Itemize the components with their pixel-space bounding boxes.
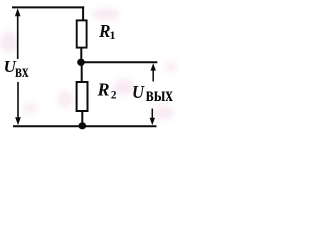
node junction dot middle xyxy=(77,59,85,66)
output voltage arrow U_vyx up arrowhead xyxy=(151,63,156,81)
wire middle horizontal (output tap) xyxy=(81,61,157,63)
wire top horizontal xyxy=(12,6,84,8)
node junction dot bottom xyxy=(79,122,87,129)
wire R1 bottom lead xyxy=(80,48,82,61)
wire node to R2 top lead xyxy=(81,63,83,82)
svg-text:вых: вых xyxy=(146,82,173,106)
svg-text:2: 2 xyxy=(111,89,117,101)
output voltage arrow U_vyx down arrowhead xyxy=(150,109,155,126)
label U_vx xyxy=(4,57,29,81)
label R1 xyxy=(98,21,115,42)
resistor R1 xyxy=(77,20,87,47)
wire R1 top lead xyxy=(82,6,84,20)
svg-text:1: 1 xyxy=(110,28,116,42)
resistor R2 xyxy=(77,82,88,111)
input voltage arrow U_vx up arrowhead xyxy=(15,8,21,59)
svg-text:R: R xyxy=(97,80,110,100)
svg-text:вх: вх xyxy=(15,61,29,81)
label R2 xyxy=(97,80,117,102)
input voltage arrow U_vx down arrowhead xyxy=(15,82,21,125)
wire bottom horizontal xyxy=(13,125,157,127)
label U_vyx xyxy=(132,82,173,106)
wire R2 bottom lead xyxy=(81,111,83,123)
svg-text:U: U xyxy=(132,82,145,102)
